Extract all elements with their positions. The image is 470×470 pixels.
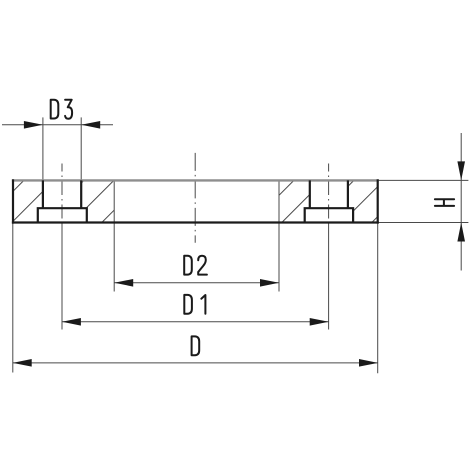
dimension H: label H (rotated) [435, 199, 454, 206]
dimension D3: label D3 [51, 100, 72, 119]
right counterbore [305, 208, 353, 222]
dimension D2: label D2 [184, 256, 207, 275]
dimension H: arrows [457, 161, 465, 241]
dimension D: arrows [13, 359, 378, 367]
dimension D3: dimension line [2, 124, 113, 126]
extension line D1 left (hole axis) [61, 223, 63, 330]
bore D2 edge left (thin) + extension line for D2 [113, 180, 115, 291]
dimension D: dimension line [13, 362, 378, 364]
flange outline bottom edge [12, 221, 379, 223]
centerline left hole [61, 164, 63, 223]
left counterbore [38, 208, 87, 222]
dimension D1: dimension line [62, 321, 329, 323]
dimension H: extension lines [378, 179, 469, 181]
extension line D left [12, 223, 14, 373]
right hole walls [310, 180, 348, 208]
flange outline left edge [12, 179, 14, 223]
flange outline right edge [377, 179, 379, 223]
left hole D3 walls [43, 180, 81, 208]
dimension D: label D [192, 336, 200, 355]
centerline right hole [328, 164, 330, 223]
flange outline top edge [12, 179, 379, 181]
dimension D2: dimension line [114, 282, 279, 284]
dimension D3: extension lines [42, 117, 44, 180]
hatching 45deg [0, 180, 414, 222]
dimension H: dimension line [460, 133, 462, 271]
bore D2 edge right (thin) + extension line for D2 [278, 180, 280, 291]
extension line D right [377, 223, 379, 374]
centerline part axis [194, 153, 196, 243]
dimension D3: arrows [24, 121, 100, 129]
extension line D1 right (hole axis) [328, 223, 330, 330]
dimension D2: arrows [114, 279, 279, 287]
dimension D1: label D1 [184, 295, 205, 314]
dimension D1: arrows [62, 318, 329, 326]
